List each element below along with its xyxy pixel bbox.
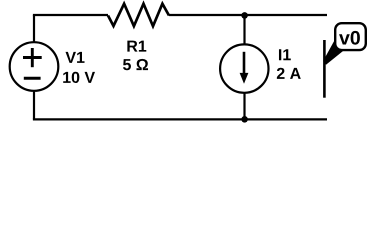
current source I1 bbox=[220, 44, 268, 92]
resistor R1 bbox=[108, 4, 169, 26]
wire left upper bbox=[33, 15, 35, 42]
label V1 bbox=[66, 52, 85, 63]
label 10 V bbox=[63, 72, 95, 83]
probe tail bbox=[323, 41, 343, 65]
wire current-source stub bottom bbox=[243, 93, 245, 120]
node label v0 box bbox=[335, 23, 366, 50]
label 5 ohm bbox=[123, 59, 148, 70]
label 2 A bbox=[277, 68, 301, 79]
node label v0 text bbox=[339, 31, 360, 45]
wire top-left segment bbox=[33, 14, 108, 16]
wire current-source stub top bbox=[243, 15, 245, 45]
probe stem wire bbox=[323, 40, 326, 98]
label I1 bbox=[279, 49, 291, 60]
junction dot top bbox=[241, 12, 248, 19]
wire left lower bbox=[33, 91, 35, 120]
label R1 bbox=[127, 41, 146, 52]
wire bottom bbox=[33, 118, 327, 120]
voltage source V1 bbox=[10, 42, 59, 91]
wire top-right segment bbox=[169, 14, 327, 16]
junction dot bottom bbox=[241, 116, 248, 123]
